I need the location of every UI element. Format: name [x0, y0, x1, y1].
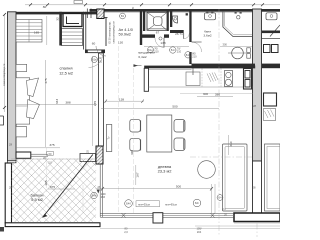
svg-text:210: 210 — [177, 50, 182, 54]
window jamb lines in top wall — [86, 9, 88, 19]
kitchen/living top wall — [144, 66, 255, 69]
pier hatched living/balcony — [96, 146, 103, 164]
svg-text:2,0: 2,0 — [222, 207, 226, 211]
marker right window — [217, 195, 223, 201]
room A right wall — [167, 9, 169, 31]
svg-text:Б4: Б4 — [218, 196, 222, 200]
vent square room B — [186, 13, 188, 15]
bathroom bottom wall thick — [192, 64, 256, 69]
svg-text:500: 500 — [172, 105, 177, 109]
corner shower tray — [223, 12, 252, 37]
bathroom sink 2 on wall — [235, 12, 237, 14]
bathroom sink — [205, 13, 216, 20]
door handle symbol — [159, 37, 162, 40]
svg-text:460: 460 — [229, 141, 233, 146]
svg-text:12,5 м2: 12,5 м2 — [59, 71, 74, 76]
kitchen sink — [186, 72, 200, 86]
svg-text:388: 388 — [65, 100, 70, 104]
svg-text:138: 138 — [160, 41, 165, 45]
bottom right T wall — [234, 213, 280, 222]
svg-text:23,3 м2: 23,3 м2 — [158, 168, 173, 173]
svg-text:5,5 м2: 5,5 м2 — [31, 197, 43, 202]
svg-text:20: 20 — [131, 7, 135, 11]
svg-text:Б4а: Б4а — [92, 194, 97, 198]
neighbor sink — [266, 13, 277, 20]
svg-text:420: 420 — [130, 150, 134, 155]
room A bottom wall — [141, 34, 155, 37]
balcony door wall stub — [16, 152, 31, 158]
svg-text:375: 375 — [49, 143, 54, 147]
neighbor bottom wall — [262, 64, 280, 69]
vestibule right wall — [140, 9, 142, 45]
svg-text:210: 210 — [154, 50, 159, 54]
neighbor fridge — [264, 93, 277, 106]
svg-text:нпп=35см: нпп=35см — [138, 203, 150, 207]
room B bottom wall — [170, 30, 184, 33]
svg-text:105/: 105/ — [196, 227, 201, 231]
entrance door swing — [96, 46, 106, 56]
door marker room A — [170, 47, 182, 54]
window marker balcony — [91, 192, 106, 199]
svg-text:Б1д: Б1д — [148, 48, 153, 52]
shower cabin — [147, 12, 167, 30]
svg-text:60: 60 — [92, 42, 96, 46]
svg-text:3,6м2: 3,6м2 — [203, 33, 211, 37]
hatched pier at entrance — [97, 9, 104, 19]
svg-text:167: 167 — [136, 172, 140, 177]
marker vestibule — [120, 13, 126, 19]
chair right top — [174, 120, 185, 133]
neighbor shower corner — [270, 25, 280, 37]
sill labels — [136, 201, 160, 207]
chair left bottom — [130, 138, 141, 151]
svg-text:210: 210 — [98, 59, 103, 63]
bathroom door swing — [192, 42, 202, 52]
room A left wall — [143, 9, 145, 31]
fridge — [244, 69, 252, 90]
svg-text:204: 204 — [197, 230, 202, 234]
svg-text:165: 165 — [34, 31, 39, 35]
room B right wall / bathroom left wall — [189, 9, 191, 42]
washing machine — [232, 47, 244, 59]
left edge stubs — [0, 116, 4, 125]
bedroom door swing — [89, 53, 104, 68]
svg-text:самозатваряща се: самозатваряща се — [3, 63, 6, 86]
svg-text:Б4г: Б4г — [195, 201, 199, 205]
bedroom right wall — [98, 53, 103, 146]
stove — [225, 71, 233, 87]
left exterior hatched wall — [8, 12, 17, 161]
window column — [153, 213, 163, 223]
svg-text:80: 80 — [43, 5, 47, 9]
counter edge lines — [149, 86, 253, 88]
sideboard on balcony wall — [80, 154, 96, 162]
arrows bottom window — [97, 190, 100, 194]
neighbor sofa partial — [265, 144, 281, 211]
balcony parapet bottom — [5, 223, 100, 227]
svg-text:нпп=95см: нпп=95см — [165, 203, 177, 207]
svg-text:67: 67 — [156, 30, 160, 34]
svg-text:300: 300 — [203, 92, 208, 96]
svg-text:138: 138 — [119, 97, 124, 101]
room B door leaf+swing — [183, 33, 185, 39]
window marker bottom — [125, 199, 201, 207]
top small box PS — [74, 1, 83, 4]
dimension ticks top — [3, 3, 264, 109]
svg-text:59.9м2: 59.9м2 — [119, 32, 131, 37]
svg-text:375: 375 — [50, 185, 55, 189]
door marker bath — [185, 51, 197, 58]
svg-text:256: 256 — [101, 195, 106, 199]
neighbor wall mid — [262, 31, 280, 34]
round table — [198, 161, 216, 179]
svg-text:2,0: 2,0 — [48, 161, 52, 165]
bedroom door wall — [85, 50, 105, 54]
svg-text:165: 165 — [44, 180, 48, 185]
shaft box (closet) — [63, 14, 82, 27]
svg-text:2,0: 2,0 — [124, 230, 128, 234]
balcony parapet left — [5, 163, 11, 223]
svg-text:26 71: 26 71 — [175, 32, 183, 36]
tilted blanket top — [27, 78, 39, 97]
balcony tile hatch — [12, 159, 97, 223]
svg-text:245: 245 — [93, 101, 97, 106]
svg-text:210: 210 — [192, 54, 197, 58]
entrance door leaf — [105, 18, 107, 47]
left wall end cap — [8, 161, 17, 163]
bottom thin lines — [195, 225, 280, 227]
TV rack — [106, 125, 112, 152]
wall stub left of shaft — [59, 12, 62, 46]
wardrobe top-left — [16, 20, 42, 43]
room A door leaf+swing — [163, 38, 165, 48]
party wall lower white — [253, 161, 262, 213]
svg-text:343: 343 — [55, 99, 59, 104]
toilet room B — [173, 16, 178, 23]
svg-text:500: 500 — [176, 184, 181, 188]
svg-text:В1: В1 — [121, 14, 125, 18]
door marker room A2 — [148, 46, 160, 53]
kitchen wall stub vertical — [144, 68, 148, 91]
chair left top — [130, 119, 141, 132]
arrow at hall opening — [134, 64, 139, 67]
svg-text:6,4м2: 6,4м2 — [138, 55, 146, 59]
svg-text:самозатваряща се: самозатваряща се — [113, 21, 116, 44]
wall right of closet — [83, 12, 85, 50]
svg-text:130: 130 — [118, 41, 123, 45]
dining table — [147, 115, 172, 152]
bed — [16, 78, 30, 124]
nightstand bottom — [16, 127, 27, 137]
neighbor washer boxes — [264, 45, 271, 53]
bathroom dim line 300 — [220, 45, 252, 47]
nightstand top — [16, 64, 27, 71]
svg-text:Б1г: Б1г — [171, 48, 175, 52]
balcony edge line — [12, 158, 97, 160]
chair right bottom — [174, 138, 185, 151]
svg-text:380: 380 — [215, 93, 220, 97]
party wall right hatched — [253, 9, 262, 161]
svg-text:Б11: Б11 — [186, 53, 191, 57]
sofa double outline — [223, 144, 248, 211]
svg-text:475: 475 — [44, 78, 48, 83]
svg-text:300: 300 — [223, 42, 228, 46]
svg-text:Б1в: Б1в — [92, 58, 97, 62]
room B left wall — [170, 9, 172, 27]
svg-text:ЕI 30 жилищна вр.: ЕI 30 жилищна вр. — [108, 21, 112, 43]
balcony diagonal projection line — [43, 155, 93, 218]
drainboard hatch — [207, 74, 211, 83]
top exterior wall left segment — [8, 12, 98, 15]
tilted blanket bottom — [27, 100, 40, 119]
living balcony window vertical — [99, 164, 101, 217]
neighbor hatch block — [264, 109, 276, 121]
svg-text:Б4б: Б4б — [126, 202, 131, 206]
top exterior wall right segment — [90, 9, 281, 12]
bedroom balcony window glazing — [31, 153, 48, 155]
door marker bedroom — [91, 56, 102, 63]
wardrobe under shaft — [62, 29, 83, 46]
svg-text:32: 32 — [56, 17, 60, 21]
